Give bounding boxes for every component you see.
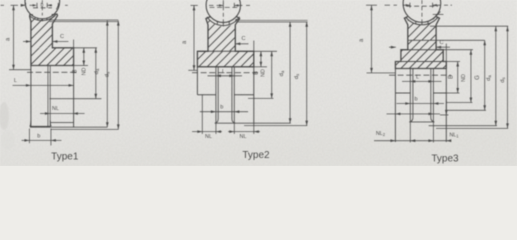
body bottom edges T3 (395, 92, 410, 94)
centerline horizontal T1 (33, 7, 52, 9)
dimension ds T1 (117, 21, 119, 130)
dimension b T1 (22, 139, 62, 141)
hatching T1 body (5, 48, 98, 66)
hub outline lower T2 (196, 67, 198, 95)
throat arc T3 (406, 17, 439, 25)
centerline vertical T3 (421, 0, 423, 26)
bore extension T2 (254, 66, 267, 68)
dimension da T2 (289, 22, 291, 123)
throat teeth T2 (216, 21, 218, 24)
dimension NL T1 (40, 113, 85, 115)
foot bottom + da extension T2 (215, 122, 291, 124)
centerline vertical T1 (41, 0, 43, 16)
step extension T1 (74, 47, 97, 49)
dimension ds T3 (507, 26, 509, 128)
step2 extension T3 (446, 61, 460, 63)
throat arc T2 (207, 17, 240, 26)
hatching T2 body (174, 51, 274, 67)
foot bottom T3 (409, 121, 434, 123)
wheel outline T2 (197, 17, 253, 67)
step1 extension T3 (443, 49, 473, 51)
hub outline lower T3 (394, 69, 396, 143)
dimension L T1 (13, 84, 74, 86)
throat teeth T1 (37, 18, 39, 21)
bore columns T2 (215, 67, 217, 123)
dimension B T1 (83, 48, 85, 66)
dimension C T3 (389, 46, 396, 48)
body bottom edges T2 (197, 94, 216, 96)
Type1 group (0, 0, 120, 162)
throat arc T1 (29, 15, 55, 20)
top dimension T2 (209, 4, 214, 6)
top dimension T1 (11, 4, 19, 6)
dimension ND T3 (470, 50, 472, 103)
dimension ND T1 (95, 48, 97, 99)
dimension B T3 (457, 62, 459, 94)
bore columns T3 (409, 69, 411, 122)
inner bottom line T1 (50, 122, 73, 124)
hatching T3 rim upper (371, 16, 463, 40)
Type2 group (162, 0, 308, 161)
bore extension T1 (74, 65, 88, 67)
dimension a T2 (191, 4, 198, 6)
bottom extension ds T1 (51, 128, 119, 130)
da bottom extension T3 (429, 125, 497, 127)
dimension da T1 (106, 21, 108, 128)
dimension B T2 (260, 51, 262, 67)
ds bottom extension T3 (436, 127, 508, 129)
dimension b T3 (397, 103, 445, 105)
step extension T2 (254, 50, 277, 52)
dimension L T3 (402, 80, 442, 82)
axis dashed T2 (192, 72, 258, 74)
worm circle T2 (206, 0, 240, 23)
dimension ds T2 (306, 22, 308, 126)
top extension T2 (236, 19, 308, 21)
worm circle T1 (25, 0, 60, 19)
centerline vertical T2 (222, 0, 224, 27)
worm circle T3 (403, 0, 441, 22)
dimension NL right T2 (228, 131, 260, 133)
rim joint line T3 (408, 39, 436, 41)
hub outline lower T1 (30, 66, 32, 127)
dimension NL2 NL1 T3 (374, 140, 451, 142)
axis dashed T3 (389, 74, 451, 76)
dimension C T1 (23, 41, 31, 43)
ds top extension T3 (430, 25, 508, 27)
bottom extension da T1 (30, 126, 108, 128)
wheel outline T1 (30, 14, 74, 65)
dimension L T2 (208, 75, 243, 77)
top extension T1 (50, 19, 119, 21)
ds bottom extension T2 (244, 125, 307, 127)
stub mark T3 (433, 13, 444, 15)
dimension G T3 (484, 40, 486, 110)
centerline horizontal T3 (407, 5, 439, 7)
hatching T2 rim (162, 17, 272, 51)
dimension C T2 (235, 43, 248, 45)
dimension b T2 (200, 111, 248, 113)
Type3 group (359, 0, 509, 164)
dimension mid row T3 (387, 113, 441, 115)
hatching T3 lower (359, 40, 480, 68)
G top extension T3 (436, 39, 485, 41)
top dimension T3 (385, 4, 391, 6)
centerline horizontal T2 (210, 6, 238, 8)
bottom edge T1 (30, 125, 51, 127)
dimension ND T2 (271, 51, 273, 98)
dimension NL left T2 (192, 131, 222, 133)
dimension da T3 (495, 26, 497, 126)
hatching T1 rim (0, 14, 90, 48)
wheel outline T3 (395, 17, 446, 69)
small down arrow T3 (445, 100, 447, 115)
dimension a T3 (366, 4, 377, 6)
dimension a T1 (13, 5, 15, 69)
throat teeth T3 (415, 21, 417, 24)
axis dashed T1 (27, 71, 79, 73)
scan smudge left (0, 102, 9, 130)
